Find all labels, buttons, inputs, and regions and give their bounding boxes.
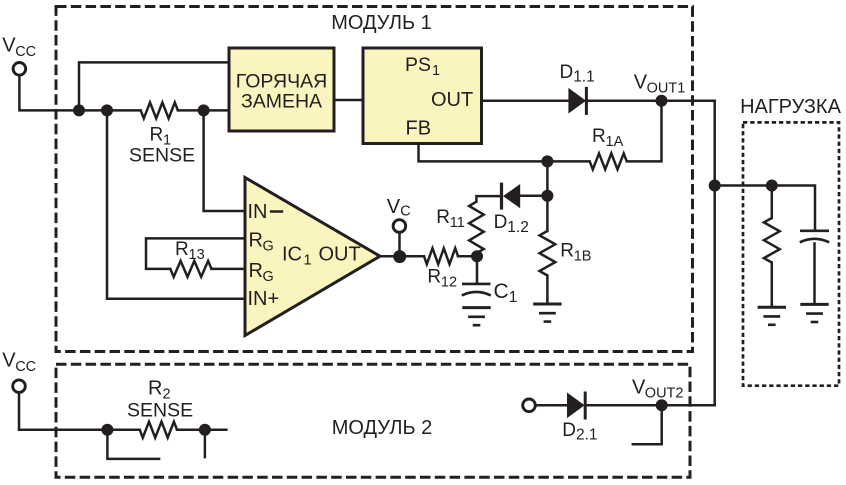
svg-text:R: R (249, 260, 263, 282)
capacitor C1 (476, 256, 479, 282)
svg-text:11: 11 (450, 215, 465, 231)
wire R13 to RG2 (212, 268, 246, 271)
svg-text:R: R (148, 378, 162, 400)
diode D1.2 (503, 184, 520, 208)
svg-text:13: 13 (189, 247, 205, 263)
svg-text:C: C (400, 203, 410, 219)
svg-text:C: C (494, 280, 509, 303)
svg-text:1A: 1A (606, 134, 624, 150)
svg-text:1: 1 (509, 289, 518, 306)
wire R11 to R12 node (475, 253, 478, 256)
hot-swap block (229, 48, 334, 131)
ground (load R) (758, 306, 786, 309)
wire terminal to D2.1 (536, 404, 568, 407)
resistor R12 (424, 248, 458, 264)
svg-text:G: G (263, 239, 274, 255)
svg-text:12: 12 (441, 275, 457, 291)
wire D2.1 to VOUT2 (588, 404, 715, 407)
wire Vcc2 to R2 (19, 393, 140, 430)
node FB junction (541, 155, 553, 167)
input terminal D2.1 (523, 399, 536, 412)
node R2 left (101, 424, 113, 436)
wire hot-swap to PS1 (334, 99, 363, 102)
wire to IN- (204, 110, 245, 211)
resistor R1A (590, 153, 627, 169)
wire R1A to VOUT1 (627, 101, 662, 162)
diode D1.1 (568, 88, 586, 114)
wire R1 to hot-swap (178, 109, 229, 112)
svg-text:R: R (150, 124, 164, 145)
svg-text:OUT: OUT (319, 243, 361, 265)
svg-text:МОДУЛЬ 1: МОДУЛЬ 1 (331, 12, 432, 34)
node VOUT2 (656, 399, 668, 411)
svg-text:D: D (562, 420, 576, 441)
ground (R1B) (533, 303, 561, 306)
wire VOUT1 down to VOUT2 (713, 101, 716, 406)
node D1.2 junction (541, 190, 553, 202)
svg-text:R: R (427, 267, 441, 288)
power module PS1 (363, 48, 482, 144)
svg-text:1.1: 1.1 (573, 69, 595, 86)
wire to IN+ (107, 110, 245, 298)
wire D1.2 anode (520, 195, 547, 198)
resistor R13 (170, 261, 211, 277)
svg-text:OUT: OUT (431, 89, 473, 111)
ground (load C) (800, 303, 828, 306)
node C1 (471, 250, 483, 262)
svg-text:G: G (263, 269, 274, 285)
wire FB junction down (546, 161, 549, 195)
module 2 dashed box (56, 364, 690, 477)
svg-text:CC: CC (15, 44, 36, 60)
node opamp out (393, 250, 406, 263)
wire Vc stub (398, 233, 401, 256)
svg-text:PS: PS (405, 54, 431, 76)
wire D1.1 to VOUT1 (589, 99, 715, 102)
op-amp IC1 (245, 178, 380, 336)
svg-text:R: R (592, 126, 606, 147)
Vcc terminal (module 2) (13, 380, 26, 393)
svg-text:R: R (249, 230, 263, 252)
svg-text:OUT1: OUT1 (647, 80, 686, 96)
svg-text:V: V (2, 350, 16, 372)
wire top bypass to hot-swap (79, 62, 229, 110)
svg-text:OUT2: OUT2 (645, 385, 684, 401)
resistor R1B (546, 196, 549, 231)
wire R12 to C1 node (458, 255, 477, 258)
wire D1.2 cathode to R11 (476, 196, 500, 202)
svg-text:R: R (175, 239, 189, 260)
wire PS1 OUT to D1.1 (482, 99, 569, 102)
svg-text:1: 1 (432, 63, 440, 79)
load resistor (771, 186, 774, 219)
node load R top (766, 180, 778, 192)
svg-text:1.2: 1.2 (507, 219, 529, 236)
svg-text:IN+: IN+ (248, 288, 280, 310)
wire RG top loop (146, 238, 245, 269)
svg-text:V: V (387, 196, 401, 218)
svg-text:ЗАМЕНА: ЗАМЕНА (241, 91, 322, 113)
wire opamp out (378, 255, 424, 258)
svg-text:FB: FB (406, 118, 432, 140)
module 1 dashed box (56, 7, 693, 352)
stub R2 right down (204, 430, 207, 457)
load capacitor (800, 230, 829, 233)
Vcc terminal (module 1) (13, 63, 26, 76)
node load tap (709, 180, 721, 192)
svg-text:1B: 1B (574, 248, 592, 264)
svg-text:НАГРУЗКА: НАГРУЗКА (740, 96, 842, 118)
svg-text:1: 1 (304, 252, 312, 268)
resistor R1 (141, 102, 178, 118)
wire into load (715, 186, 815, 230)
node junction 3 (198, 104, 210, 116)
svg-text:R: R (436, 207, 450, 228)
svg-text:CC: CC (15, 359, 36, 375)
resistor R11 (469, 202, 484, 254)
svg-text:ГОРЯЧАЯ: ГОРЯЧАЯ (236, 71, 327, 93)
node junction 1 (73, 104, 85, 116)
wire Vcc to R1 (19, 75, 140, 110)
svg-text:SENSE: SENSE (127, 399, 193, 421)
stub VOUT2 down (633, 405, 662, 444)
stub R2 left down (107, 430, 159, 459)
node VOUT1 (656, 95, 668, 107)
svg-text:SENSE: SENSE (129, 144, 195, 166)
ground (C1) (462, 306, 490, 309)
svg-text:2.1: 2.1 (576, 427, 598, 444)
diode D2.1 (567, 393, 585, 419)
node junction 2 (101, 104, 113, 116)
wire R2 right (177, 428, 226, 431)
svg-text:R: R (560, 241, 574, 262)
resistor R2 (140, 422, 177, 438)
load dashed box (743, 122, 839, 385)
wire PS1 FB down (419, 144, 590, 162)
svg-text:D: D (560, 62, 574, 83)
svg-text:V: V (2, 34, 16, 56)
svg-text:IN: IN (248, 201, 268, 223)
svg-text:D: D (494, 212, 508, 233)
node R2 right (199, 424, 211, 436)
Vc terminal (393, 220, 406, 233)
svg-text:МОДУЛЬ 2: МОДУЛЬ 2 (332, 417, 433, 439)
svg-text:IC: IC (282, 243, 302, 265)
